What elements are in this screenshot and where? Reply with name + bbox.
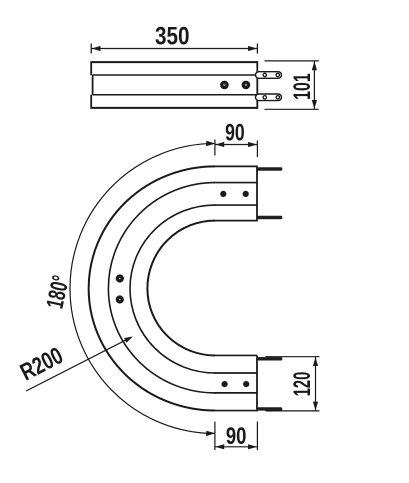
dimension 120 bottom arrow	[313, 402, 318, 411]
angle arc top arrow	[206, 141, 215, 146]
radius leader line R200	[26, 337, 132, 391]
dimension 90 bottom right arrow	[248, 444, 257, 449]
bend third arc	[130, 205, 215, 373]
svg-text:101: 101	[289, 73, 316, 100]
svg-text:120: 120	[289, 372, 316, 397]
top end lower pin	[258, 216, 283, 219]
rail left end cap	[91, 61, 92, 109]
dimension 101 line	[313, 61, 315, 109]
bend outer edge arc	[89, 166, 215, 410]
bottom end upper pin	[258, 357, 283, 360]
svg-text:90: 90	[226, 423, 247, 450]
dimension 350 left arrow	[92, 46, 101, 51]
bend bottom end straight lines	[214, 355, 257, 410]
rivet left on rail	[220, 81, 229, 90]
bottom end lower pin	[258, 408, 283, 411]
dimension 350 line	[91, 48, 257, 50]
svg-text:350: 350	[155, 22, 190, 50]
rail top edge	[91, 61, 257, 63]
rail right end cap	[256, 61, 258, 109]
rivet pair at bend bottom end	[222, 381, 228, 387]
dimension 90 top left arrow	[215, 142, 224, 147]
lower connector tongue of rail	[256, 94, 282, 101]
bend top end cap	[256, 166, 258, 222]
dimension 120 top arrow	[313, 357, 318, 366]
dimension 90 bottom left arrow	[215, 444, 224, 449]
bend second arc	[108, 183, 215, 393]
bend bottom end cap	[256, 355, 258, 411]
dimension 350 right arrow	[248, 46, 257, 51]
dimension 101 top arrow	[312, 61, 317, 70]
bend top end straight lines	[214, 166, 257, 220]
angle arc bottom arrow	[206, 431, 215, 436]
upper connector tongue of rail	[256, 72, 282, 79]
dimension 90 bottom extension lines	[215, 422, 258, 451]
dimension 101 bottom arrow	[312, 100, 317, 109]
rail upper inner line	[93, 74, 258, 76]
svg-text:90: 90	[225, 119, 245, 146]
dimension 90 top extension lines	[215, 140, 258, 158]
rivet right on rail	[242, 81, 251, 90]
radius leader arrow	[124, 337, 133, 343]
dimension 120 extension lines	[266, 357, 320, 411]
dimension 90 bottom line	[215, 446, 258, 448]
rivet pair at bend left (180 deg) upper	[116, 274, 124, 282]
dimension 90 top right arrow	[248, 142, 257, 147]
dimension 350 extension lines	[91, 44, 257, 54]
top end upper pin	[258, 168, 283, 171]
rivet pair at bend left (180 deg) lower	[116, 295, 124, 303]
rivet pair at bend top end	[220, 191, 226, 197]
dimension 120 line	[315, 357, 317, 411]
rail bottom edge	[91, 107, 257, 109]
rail lower inner line	[93, 94, 258, 96]
dimension 101 extension lines	[265, 61, 319, 109]
angle dimension arc 180 deg	[70, 143, 215, 433]
dimension 90 top line	[215, 144, 258, 146]
bend inner edge arc	[147, 221, 215, 356]
